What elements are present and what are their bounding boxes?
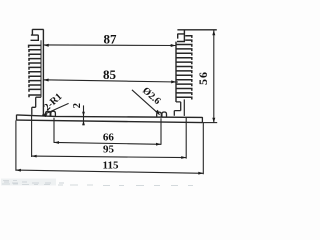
top-right bar and 56 extension line	[177, 29, 216, 31]
dim 115 line	[16, 170, 204, 173]
left wall inner face	[42, 29, 44, 116]
dim 85 line	[43, 80, 178, 82]
scan noise at bottom	[1, 179, 193, 186]
dim 66 line	[54, 142, 161, 144]
95 arrows	[32, 155, 187, 159]
dim 95 line	[32, 156, 187, 158]
right top hook	[177, 30, 185, 42]
arrowheads	[16, 30, 215, 174]
right wall foot	[174, 102, 180, 116]
base right edge	[201, 117, 203, 122]
dim 2 line	[83, 105, 85, 125]
left wall outer spine	[40, 40, 42, 97]
right wall outer face below fins	[183, 99, 185, 116]
extrusion profile: top-left corner lip	[31, 29, 44, 40]
right heatsink fins	[177, 36, 192, 100]
svg-text:85: 85	[103, 67, 117, 82]
svg-text:56: 56	[196, 71, 210, 85]
svg-text:2: 2	[72, 103, 83, 108]
svg-text:115: 115	[103, 159, 119, 171]
dim 66 extensions	[54, 118, 161, 145]
svg-text:95: 95	[103, 143, 115, 155]
115 arrows	[16, 169, 203, 175]
87 arrows	[44, 44, 176, 47]
left heatsink fins	[29, 45, 42, 97]
left wall foot	[32, 97, 41, 115]
56 arrows	[212, 30, 215, 123]
85 arrows	[44, 79, 177, 84]
dim 115 extensions	[16, 120, 203, 174]
dim 95 extensions	[32, 115, 187, 158]
leader 2-R1	[42, 103, 68, 115]
dim 56 bottom extension	[203, 122, 218, 124]
svg-text:87: 87	[104, 31, 118, 46]
2 dim ticks	[82, 112, 85, 125]
dim 56 line	[213, 30, 215, 123]
right wall inner face	[175, 42, 177, 102]
66 arrows	[54, 141, 161, 146]
left screw boss on floor	[46, 111, 56, 116]
leader dia 2.6	[132, 90, 160, 115]
dimension texts	[42, 31, 210, 171]
base plate top surface	[17, 115, 203, 118]
right screw boss on floor	[157, 112, 167, 117]
base plate bottom surface	[17, 120, 203, 123]
base left edge	[16, 115, 18, 121]
dia leader arrow	[155, 110, 159, 115]
svg-text:66: 66	[103, 132, 115, 144]
svg-text:Ø2.6: Ø2.6	[140, 85, 162, 107]
R1 leader arrow	[42, 114, 47, 117]
dim 87 line	[44, 44, 176, 47]
